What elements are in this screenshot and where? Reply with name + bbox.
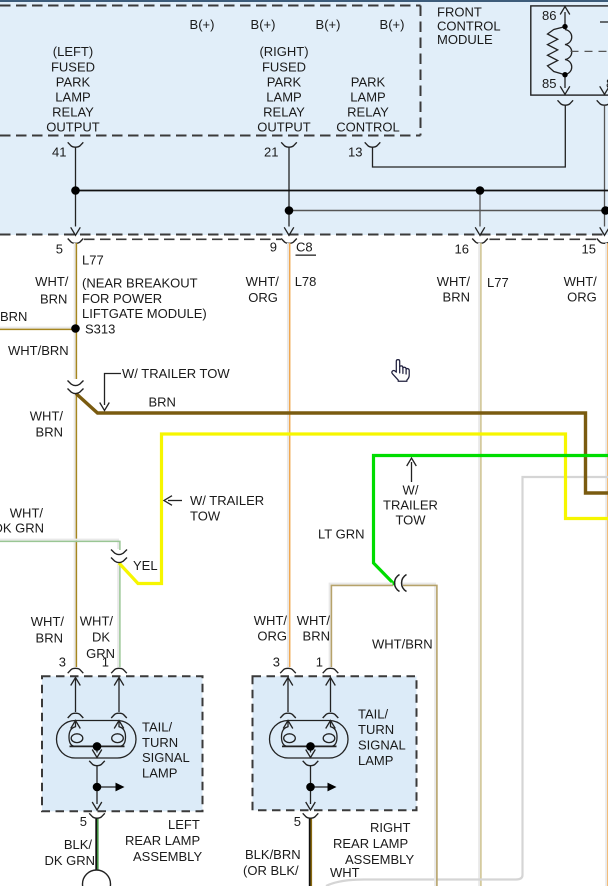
svg-text:W/ TRAILER: W/ TRAILER — [190, 493, 264, 508]
svg-text:WHT/: WHT/ — [80, 613, 114, 628]
svg-text:W/ TRAILER TOW: W/ TRAILER TOW — [122, 366, 230, 381]
svg-text:L77: L77 — [82, 253, 104, 268]
svg-text:(NEAR BREAKOUT: (NEAR BREAKOUT — [82, 276, 198, 291]
svg-text:WHT/BRN: WHT/BRN — [8, 343, 69, 358]
svg-text:13: 13 — [348, 145, 362, 160]
svg-text:L77: L77 — [487, 275, 509, 290]
svg-text:BRN: BRN — [36, 425, 63, 440]
svg-text:BRN: BRN — [36, 630, 63, 645]
svg-text:WHT/: WHT/ — [30, 409, 64, 424]
svg-text:86: 86 — [542, 8, 556, 23]
svg-text:LEFT: LEFT — [168, 817, 200, 832]
svg-text:BRN: BRN — [303, 628, 330, 643]
svg-text:WHT/: WHT/ — [254, 613, 288, 628]
svg-text:WHT/: WHT/ — [564, 274, 598, 289]
svg-text:CONTROL: CONTROL — [437, 18, 501, 33]
svg-text:16: 16 — [455, 242, 469, 257]
svg-text:1: 1 — [316, 655, 323, 670]
svg-text:BRN: BRN — [40, 292, 67, 307]
svg-text:WHT/BRN: WHT/BRN — [372, 636, 433, 651]
svg-text:RELAY: RELAY — [263, 105, 305, 120]
svg-text:B(+): B(+) — [316, 17, 341, 32]
svg-text:RELAY: RELAY — [347, 105, 389, 120]
svg-text:LAMP: LAMP — [358, 753, 393, 768]
svg-text:41: 41 — [52, 145, 66, 160]
svg-text:3: 3 — [273, 655, 280, 670]
svg-text:15: 15 — [582, 242, 596, 257]
svg-text:FOR POWER: FOR POWER — [82, 291, 162, 306]
svg-text:B(+): B(+) — [251, 17, 276, 32]
svg-text:85: 85 — [542, 76, 556, 91]
svg-text:ASSEMBLY: ASSEMBLY — [133, 849, 202, 864]
svg-text:S313: S313 — [85, 322, 115, 337]
svg-text:LAMP: LAMP — [350, 90, 385, 105]
svg-text:B(+): B(+) — [190, 17, 215, 32]
svg-text:LAMP: LAMP — [55, 90, 90, 105]
svg-text:PARK: PARK — [56, 74, 91, 89]
svg-text:LAMP: LAMP — [142, 765, 177, 780]
svg-text:BRN: BRN — [443, 289, 470, 304]
svg-text:W/: W/ — [403, 483, 419, 498]
svg-text:C8: C8 — [296, 240, 313, 255]
svg-text:GRN: GRN — [86, 646, 115, 661]
svg-text:LAMP: LAMP — [266, 90, 301, 105]
svg-text:WHT/: WHT/ — [35, 274, 69, 289]
svg-text:YEL: YEL — [133, 558, 158, 573]
svg-text:BRN: BRN — [0, 309, 27, 324]
svg-text:FRONT: FRONT — [437, 5, 482, 20]
svg-text:L78: L78 — [295, 274, 317, 289]
svg-text:3: 3 — [59, 655, 66, 670]
svg-text:FUSED: FUSED — [51, 59, 95, 74]
svg-text:BLK/BRN: BLK/BRN — [245, 847, 301, 862]
svg-text:REAR LAMP: REAR LAMP — [125, 833, 200, 848]
svg-text:WHT/: WHT/ — [246, 274, 280, 289]
svg-text:WHT/: WHT/ — [437, 274, 471, 289]
svg-text:ORG: ORG — [248, 290, 278, 305]
svg-text:REAR LAMP: REAR LAMP — [333, 836, 408, 851]
svg-text:9: 9 — [270, 240, 277, 255]
svg-text:OUTPUT: OUTPUT — [257, 120, 311, 135]
svg-text:TURN: TURN — [358, 722, 394, 737]
svg-text:TURN: TURN — [142, 735, 178, 750]
svg-text:TAIL/: TAIL/ — [142, 720, 172, 735]
svg-text:(RIGHT): (RIGHT) — [259, 44, 308, 59]
svg-text:5: 5 — [294, 814, 301, 829]
svg-text:DK GRN: DK GRN — [44, 853, 95, 868]
svg-text:WHT/: WHT/ — [10, 506, 44, 521]
svg-text:OUTPUT: OUTPUT — [46, 120, 100, 135]
svg-text:DK GRN: DK GRN — [0, 521, 44, 536]
svg-text:WHT/: WHT/ — [297, 613, 331, 628]
svg-text:5: 5 — [80, 814, 87, 829]
svg-text:(LEFT): (LEFT) — [53, 44, 93, 59]
svg-text:BRN: BRN — [149, 395, 176, 410]
svg-text:SIGNAL: SIGNAL — [142, 750, 190, 765]
svg-text:TOW: TOW — [395, 513, 426, 528]
svg-text:ORG: ORG — [567, 289, 597, 304]
svg-text:ORG: ORG — [257, 628, 287, 643]
svg-text:RIGHT: RIGHT — [370, 820, 411, 835]
svg-text:TAIL/: TAIL/ — [358, 707, 388, 722]
svg-text:B(+): B(+) — [380, 17, 405, 32]
svg-text:(OR BLK/: (OR BLK/ — [243, 863, 299, 878]
svg-text:PARK: PARK — [351, 74, 386, 89]
svg-text:DK: DK — [92, 629, 110, 644]
svg-text:SIGNAL: SIGNAL — [358, 738, 406, 753]
svg-text:CONTROL: CONTROL — [336, 120, 400, 135]
svg-text:1: 1 — [102, 655, 109, 670]
svg-text:LT GRN: LT GRN — [318, 527, 364, 542]
svg-text:WHT/: WHT/ — [31, 614, 65, 629]
svg-text:FUSED: FUSED — [262, 59, 306, 74]
svg-text:MODULE: MODULE — [437, 32, 493, 47]
svg-text:LIFTGATE MODULE): LIFTGATE MODULE) — [82, 306, 207, 321]
svg-text:RELAY: RELAY — [52, 105, 94, 120]
svg-text:TRAILER: TRAILER — [383, 498, 438, 513]
svg-text:5: 5 — [56, 242, 63, 257]
svg-text:BLK/: BLK/ — [64, 837, 93, 852]
svg-text:TOW: TOW — [190, 509, 221, 524]
svg-text:PARK: PARK — [267, 74, 302, 89]
svg-text:21: 21 — [264, 145, 278, 160]
svg-text:WHT: WHT — [330, 865, 360, 880]
